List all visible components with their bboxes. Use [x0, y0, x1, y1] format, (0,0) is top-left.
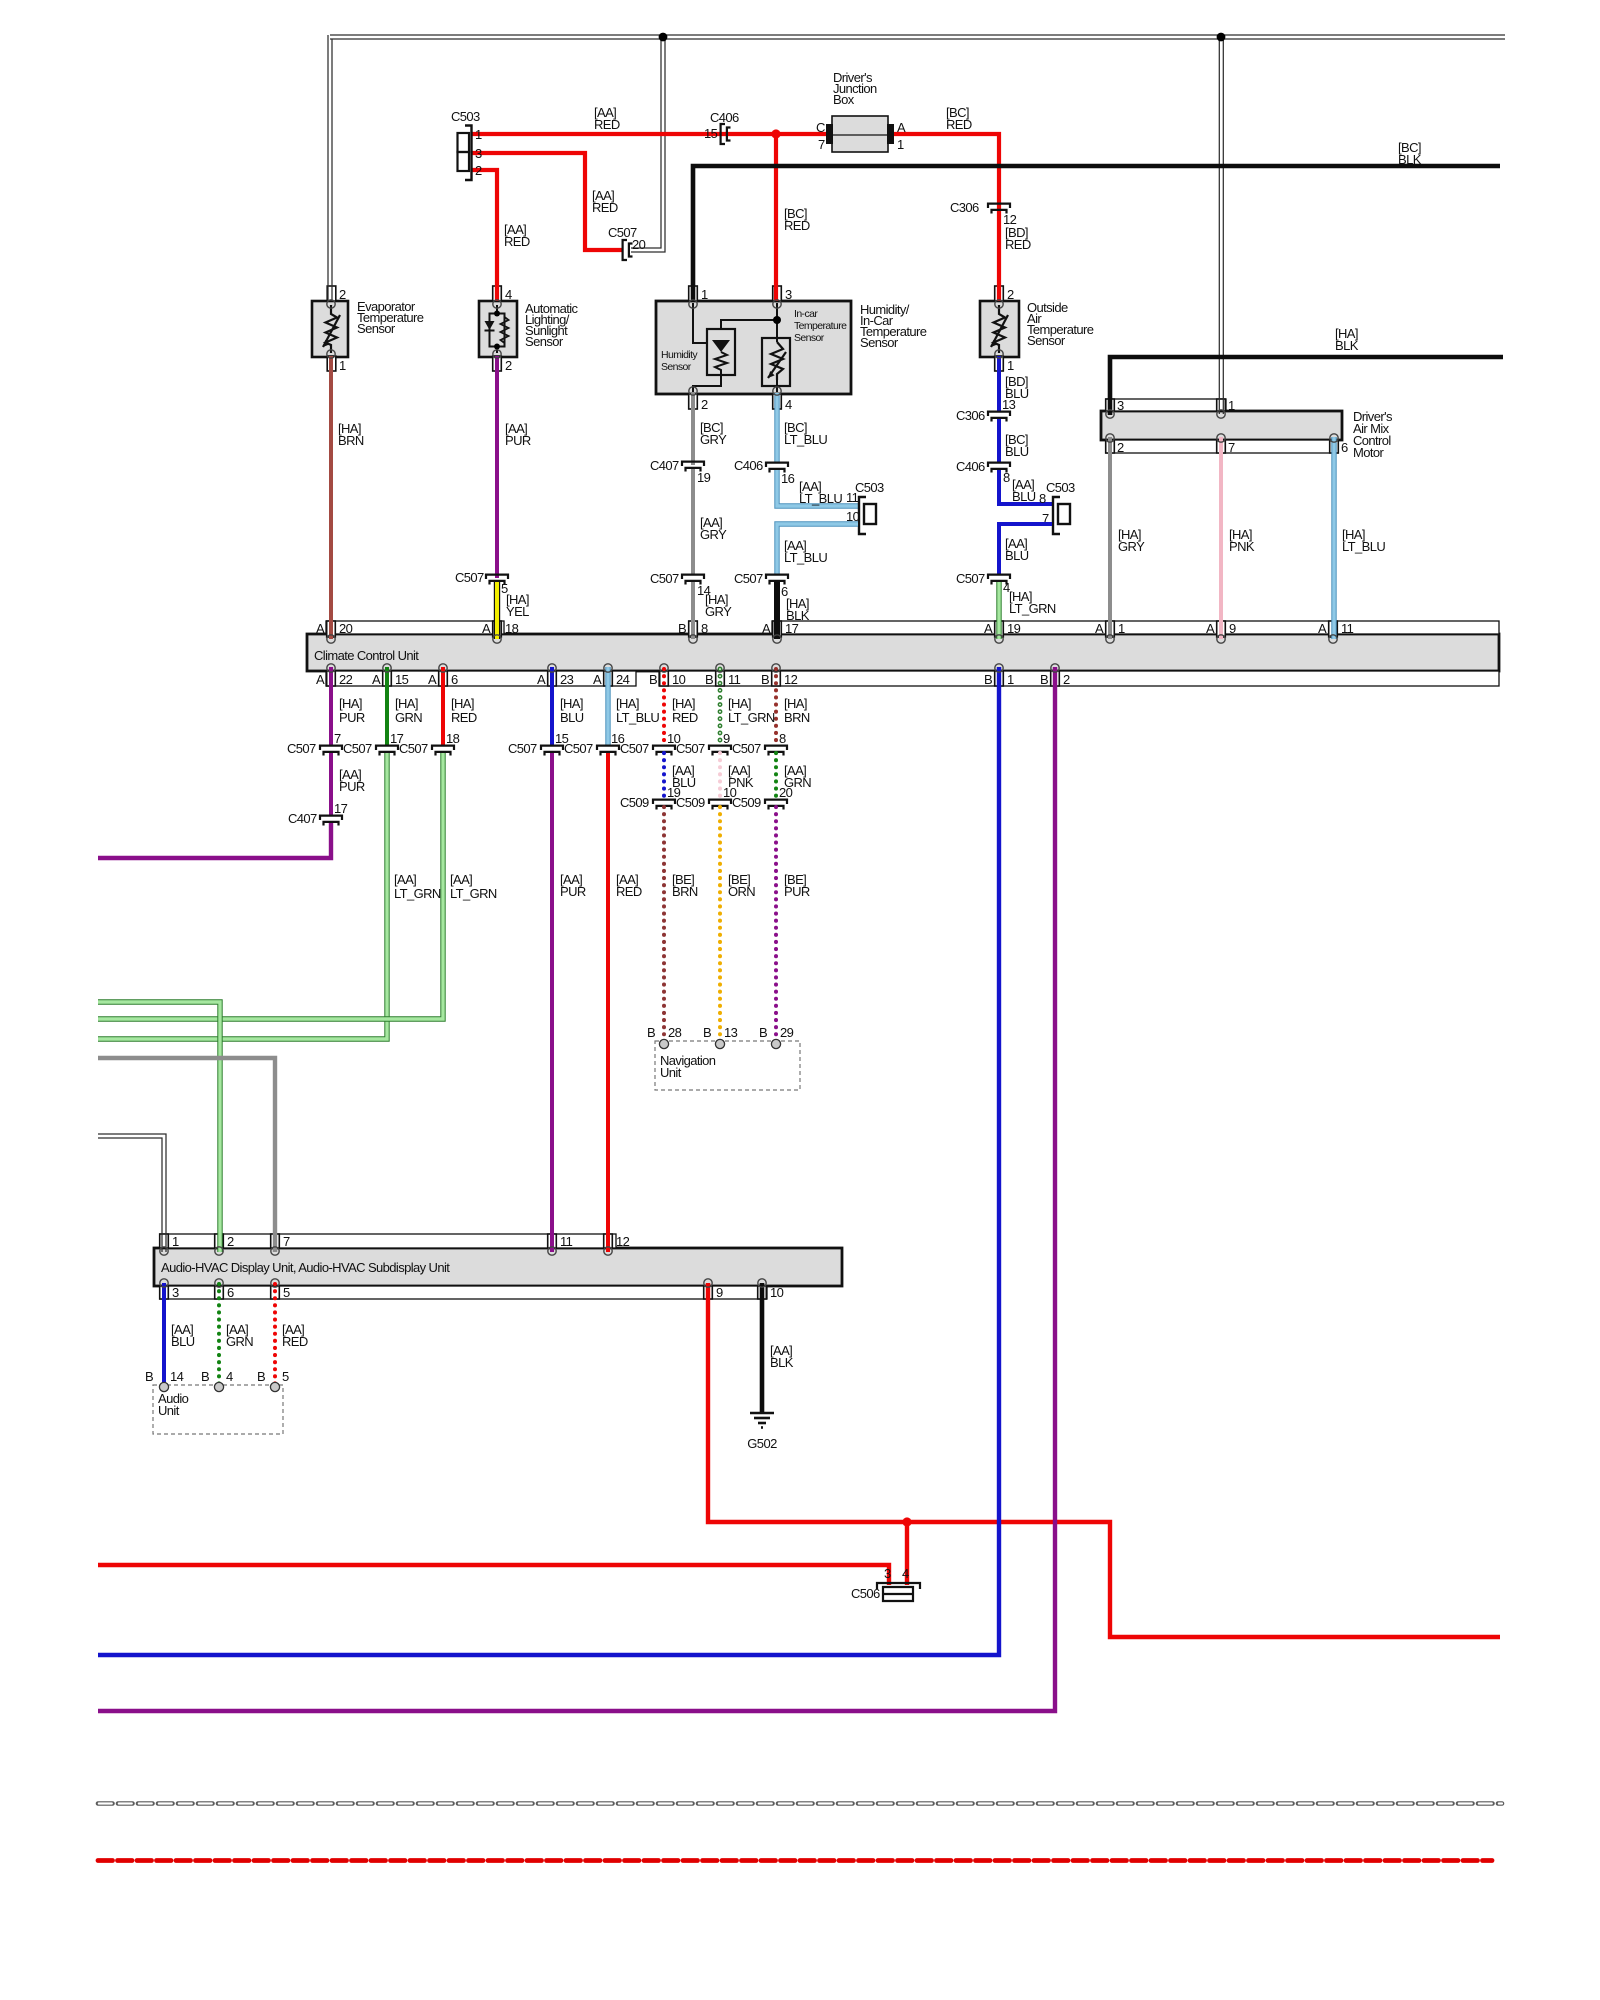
svg-text:3: 3 — [884, 1566, 891, 1581]
CCU pin A18 circle — [493, 635, 501, 643]
junction node red at C406 branch — [771, 129, 780, 138]
Display unit pin 1 square — [160, 1234, 169, 1248]
CCU pin B12 circle — [772, 664, 780, 672]
wire white drop to evaporator pin 2 — [327, 35, 329, 301]
wire [BC] GRY humidity pin2 to C407-19 — [691, 393, 695, 465]
Display pin 5 circle — [271, 1279, 279, 1287]
wire [HA] GRY motor pin2 to CCU A1 — [1108, 437, 1112, 639]
connector C406 pin 16 — [766, 463, 788, 467]
wire [AA] BLU display pin3 to Audio B14 — [162, 1283, 166, 1386]
CCU pin B2 circle — [1051, 664, 1059, 672]
svg-text:In-car: In-car — [794, 308, 818, 320]
svg-text:24: 24 — [616, 672, 630, 687]
Sunlight sensor pin 4 square — [493, 286, 502, 301]
svg-text:2: 2 — [227, 1234, 234, 1249]
svg-text:RED: RED — [946, 117, 972, 132]
wire [BE] BRN dotted C509-19 to Navigation B28 — [662, 807, 666, 1040]
svg-text:PUR: PUR — [560, 884, 586, 899]
wire [BC] BLU C306-13 to C406-8 — [997, 419, 1001, 463]
svg-text:[AA]: [AA] — [450, 872, 472, 887]
svg-text:C507: C507 — [650, 571, 679, 586]
Audio pin B5 circle — [270, 1382, 279, 1391]
wire [AA] GRY from left edge to display pin 7 — [98, 1058, 275, 1252]
svg-text:BRN: BRN — [784, 710, 810, 725]
Display unit pin 6 square — [215, 1286, 224, 1299]
svg-text:PNK: PNK — [1229, 539, 1255, 554]
wire [AA] LT_GRN C507-17 to left edge — [98, 753, 387, 1039]
wire [BC] LT_BLU humidity pin4 to C406-16 — [774, 393, 779, 463]
svg-text:C507: C507 — [287, 741, 316, 756]
svg-text:1: 1 — [339, 358, 346, 373]
svg-text:PUR: PUR — [339, 779, 365, 794]
svg-text:Audio-HVAC Display Unit, Audio: Audio-HVAC Display Unit, Audio-HVAC Subd… — [161, 1260, 450, 1275]
svg-text:C507: C507 — [734, 571, 763, 586]
Display unit pin 10 square — [758, 1286, 767, 1299]
svg-text:C507: C507 — [455, 570, 484, 585]
wire [HA] YEL C507-5 to CCU A18 — [494, 582, 500, 639]
svg-text:GRN: GRN — [226, 1334, 253, 1349]
connector C507 pin 18 — [432, 746, 454, 750]
connector C503 pins 11/10 (humidity) — [859, 497, 866, 534]
Display pin 6 circle — [215, 1279, 223, 1287]
svg-text:19: 19 — [1007, 621, 1021, 636]
CCU pin A23 circle — [548, 664, 556, 672]
svg-text:19: 19 — [697, 470, 711, 485]
svg-text:3: 3 — [475, 146, 482, 161]
svg-text:Sensor: Sensor — [860, 335, 899, 350]
connector C507 pin 4 — [988, 575, 1010, 579]
Display pin 10 circle — [758, 1279, 766, 1287]
svg-text:BLU: BLU — [171, 1334, 195, 1349]
svg-text:BLU: BLU — [1005, 548, 1029, 563]
svg-text:A: A — [428, 672, 437, 687]
svg-text:C507: C507 — [732, 741, 761, 756]
svg-text:[HA]: [HA] — [560, 696, 583, 711]
CCU pin A15 circle — [383, 664, 391, 672]
wire [AA] RED dotted display pin5 to Audio B5 — [273, 1284, 277, 1386]
svg-text:LT_BLU: LT_BLU — [784, 432, 827, 447]
svg-text:28: 28 — [668, 1025, 682, 1040]
svg-text:RED: RED — [784, 218, 810, 233]
svg-text:C506: C506 — [851, 1586, 880, 1601]
svg-text:A: A — [537, 672, 546, 687]
Motor pin 7 circle — [1217, 434, 1225, 442]
svg-text:C407: C407 — [288, 811, 317, 826]
CCU pin B10 circle — [660, 664, 668, 672]
junction node red above C506 — [902, 1517, 911, 1526]
Motor pin 1 circle — [1217, 410, 1225, 418]
Navigation pin B28 circle — [659, 1039, 668, 1048]
Audio-HVAC top pin-row box — [160, 1234, 616, 1248]
CCU pin A19 square — [995, 621, 1004, 637]
svg-text:LT_BLU: LT_BLU — [1342, 539, 1385, 554]
wire [HA] GRY C507-14 to CCU B8 — [691, 582, 695, 639]
svg-text:C507: C507 — [564, 741, 593, 756]
svg-text:C503: C503 — [1046, 480, 1075, 495]
svg-text:2: 2 — [339, 287, 346, 302]
wire [AA] PUR C407-17 to left edge — [98, 823, 331, 858]
Driver's Junction Box — [832, 116, 888, 152]
CCU pin A22 square — [327, 671, 336, 686]
separator dashed gray line — [98, 1801, 1502, 1806]
CCU pin A18 square — [493, 621, 502, 637]
svg-text:1: 1 — [897, 137, 904, 152]
Display pin 2 circle — [215, 1247, 223, 1255]
svg-text:B: B — [705, 672, 713, 687]
svg-text:LT_GRN: LT_GRN — [394, 886, 441, 901]
svg-text:C509: C509 — [732, 795, 761, 810]
svg-text:8: 8 — [701, 621, 708, 636]
Audio Unit dashed box — [153, 1385, 283, 1434]
svg-text:C507: C507 — [343, 741, 372, 756]
svg-text:C507: C507 — [399, 741, 428, 756]
Evaporator thermistor symbol — [326, 305, 338, 353]
CCU pin A17 square — [773, 621, 782, 637]
svg-text:Unit: Unit — [158, 1403, 180, 1418]
svg-text:C406: C406 — [956, 459, 985, 474]
Sunlight sensor photodiode+resistor symbol — [496, 305, 498, 353]
CCU pin B11 square — [716, 671, 725, 686]
Motor top pin-row box — [1106, 399, 1226, 411]
CCU pin A11 square — [1329, 621, 1338, 637]
svg-text:BLU: BLU — [560, 710, 584, 725]
wire [AA] RED display pin9 run — [708, 1283, 1500, 1637]
svg-text:A: A — [984, 621, 993, 636]
svg-text:A: A — [762, 621, 771, 636]
svg-text:29: 29 — [780, 1025, 794, 1040]
svg-text:9: 9 — [1229, 621, 1236, 636]
svg-text:9: 9 — [723, 731, 730, 746]
wire [AA] LT_GRN C507-18 to left edge — [98, 753, 443, 1019]
connector C503 pins 1/3/2 — [458, 133, 470, 152]
svg-text:1: 1 — [1228, 398, 1235, 413]
svg-text:A: A — [593, 672, 602, 687]
svg-text:BLK: BLK — [770, 1355, 794, 1370]
svg-text:PUR: PUR — [505, 433, 531, 448]
Automatic Lighting/Sunlight Sensor box — [479, 301, 517, 357]
connector C507 pin 5 — [486, 575, 508, 579]
Motor pin 2 square — [1106, 440, 1115, 453]
svg-text:GRY: GRY — [700, 527, 727, 542]
wire [AA] GRY C407-19 to C507-14 — [691, 469, 695, 575]
svg-text:15: 15 — [395, 672, 409, 687]
connector C507 pin 16 — [597, 746, 619, 750]
svg-text:4: 4 — [902, 1566, 909, 1581]
svg-text:20: 20 — [339, 621, 353, 636]
CCU pin B2 square — [1051, 671, 1060, 686]
connector C506 pins 3/4 — [877, 1583, 920, 1589]
connector C509 pin 10 — [709, 800, 731, 804]
connector C509 pin 19 — [653, 800, 675, 804]
svg-text:14: 14 — [170, 1369, 184, 1384]
svg-text:7: 7 — [818, 137, 825, 152]
wire [HA] RED dotted CCU B10 to C507-10 — [662, 669, 666, 745]
svg-text:6: 6 — [227, 1285, 234, 1300]
svg-text:A: A — [372, 672, 381, 687]
svg-text:Sensor: Sensor — [661, 361, 692, 373]
Navigation pin B29 circle — [771, 1039, 780, 1048]
svg-text:Climate Control Unit: Climate Control Unit — [314, 648, 419, 663]
svg-text:LT_BLU: LT_BLU — [616, 710, 659, 725]
svg-text:20: 20 — [632, 237, 646, 252]
svg-text:23: 23 — [560, 672, 574, 687]
svg-text:20: 20 — [779, 785, 793, 800]
Humidity sensor pin 3 square — [773, 286, 782, 301]
wire [AA] LT_BLU C503-10 back to C507-6 — [777, 524, 858, 575]
wire [BE] ORN dotted C509-10 to Navigation B13 — [718, 807, 722, 1040]
svg-text:GRY: GRY — [705, 604, 732, 619]
Humidity sensor element (diode+resistor) — [712, 340, 730, 352]
svg-text:ORN: ORN — [728, 884, 755, 899]
svg-text:RED: RED — [504, 234, 530, 249]
svg-text:12: 12 — [616, 1234, 630, 1249]
svg-text:C507: C507 — [620, 741, 649, 756]
CCU pin A24 circle — [604, 664, 612, 672]
svg-text:3: 3 — [785, 287, 792, 302]
connector C507 pin 7 — [320, 746, 342, 750]
wire [HA] BLU CCU to C507 — [550, 667, 554, 745]
svg-text:8: 8 — [779, 731, 786, 746]
Motor pin 7 square — [1217, 440, 1226, 453]
svg-text:11: 11 — [846, 490, 859, 505]
Evaporator sensor pin 2 square — [327, 286, 336, 301]
wire [HA] RED CCU to C507 — [441, 667, 445, 745]
svg-text:2: 2 — [475, 163, 482, 178]
junction node on white bus — [659, 33, 668, 42]
wire [HA] BLU CCU B1 to left edge — [98, 667, 999, 1655]
svg-text:RED: RED — [594, 117, 620, 132]
svg-text:C503: C503 — [855, 480, 884, 495]
svg-text:Sensor: Sensor — [357, 321, 396, 336]
connector C406 pin 15 — [721, 124, 725, 144]
Display unit pin 3 square — [160, 1286, 169, 1299]
OAT sensor pin 1 square — [995, 356, 1004, 371]
Display pin 7 circle — [271, 1247, 279, 1255]
svg-text:A: A — [1318, 621, 1327, 636]
CCU pin A9 circle — [1217, 635, 1225, 643]
separator dashed red line — [98, 1858, 1492, 1863]
Evaporator sensor pin 1 square — [327, 356, 336, 371]
OAT pin circles — [995, 300, 1003, 308]
wire [HA] LT_BLU CCU A24 to C507-16 — [605, 667, 610, 745]
svg-text:A: A — [316, 672, 325, 687]
svg-text:8: 8 — [1039, 491, 1046, 506]
svg-text:[HA]: [HA] — [728, 696, 751, 711]
svg-text:A: A — [1095, 621, 1104, 636]
svg-text:LT_BLU: LT_BLU — [799, 491, 842, 506]
svg-text:C507: C507 — [508, 741, 537, 756]
wire [BD] BLU OAT pin1 to C306-13 — [997, 356, 1001, 411]
wire [HA] BLK C507-6 to CCU A17 — [774, 582, 780, 639]
Audio-HVAC bottom pin-row box — [160, 1286, 767, 1299]
svg-text:4: 4 — [785, 397, 792, 412]
Climate Control Unit bottom pin-row box A22-A24 — [326, 671, 636, 686]
wire [BC] RED branch down to humidity pin 3 — [774, 134, 778, 301]
CCU pin B8 circle — [689, 635, 697, 643]
svg-text:C306: C306 — [956, 408, 985, 423]
Humidity pin circles — [689, 300, 697, 308]
wire [HA] LT_BLU motor pin6 to CCU A11 — [1331, 437, 1336, 639]
CCU pin B8 square — [689, 621, 698, 637]
wire [HA] LT_GRN C507-4 to CCU A19 — [996, 582, 1001, 639]
CCU pin B1 circle — [995, 664, 1003, 672]
connector C407 pin 19 — [682, 462, 704, 466]
svg-text:Sensor: Sensor — [1027, 333, 1066, 348]
svg-text:2: 2 — [1063, 672, 1070, 687]
wire [AA] PNK dotted C507-9 to C509-10 — [718, 753, 722, 799]
wire [AA] BLK display pin10 to ground — [760, 1283, 765, 1412]
svg-text:Sensor: Sensor — [794, 332, 825, 344]
svg-text:9: 9 — [716, 1285, 723, 1300]
svg-text:1: 1 — [172, 1234, 179, 1249]
Humidity sensor sub-box — [707, 329, 735, 375]
wire [AA] BLU C503-7 back to C507-4 — [999, 524, 1052, 575]
svg-text:Temperature: Temperature — [794, 320, 847, 332]
svg-text:[HA]: [HA] — [339, 696, 362, 711]
svg-text:Sensor: Sensor — [525, 334, 564, 349]
wire [HA] GRN CCU to C507 — [385, 667, 389, 745]
svg-text:7: 7 — [1228, 440, 1235, 455]
wire red stub to C506 pin 4 — [905, 1522, 909, 1585]
CCU pin A20 circle — [327, 635, 335, 643]
Display pin 11 circle — [548, 1247, 556, 1255]
CCU pin B12 square — [772, 671, 781, 686]
svg-text:C407: C407 — [650, 458, 679, 473]
Humidity sensor pin 2 square — [689, 394, 698, 409]
wire [AA] RED C507-16 to display pin 12 — [606, 753, 610, 1252]
wire [AA] PUR C507-7 to C407-17 — [329, 753, 333, 815]
svg-text:3: 3 — [172, 1285, 179, 1300]
OAT sensor pin 2 square — [995, 286, 1004, 301]
connector C507 pin 14 — [682, 575, 704, 579]
Display unit pin 2 square — [215, 1234, 224, 1248]
svg-text:11: 11 — [728, 672, 741, 687]
Display unit pin 12 square — [604, 1234, 613, 1248]
svg-text:13: 13 — [724, 1025, 738, 1040]
connector C507 pin 8 — [765, 746, 787, 750]
connector C507 pin 10 — [653, 746, 675, 750]
Display unit pin 5 square — [271, 1286, 280, 1299]
svg-text:A: A — [897, 120, 906, 135]
svg-text:GRY: GRY — [1118, 539, 1145, 554]
svg-text:[HA]: [HA] — [616, 696, 639, 711]
svg-text:C306: C306 — [950, 200, 979, 215]
connector C507 pin 15 — [541, 746, 563, 750]
Climate Control Unit top pin-row box A17-A11 — [772, 621, 1499, 634]
Climate Control Unit box — [307, 634, 1499, 671]
Driver's Air Mix Control Motor box — [1101, 411, 1342, 440]
node inside humidity sensor — [773, 316, 781, 324]
wire [HA] BLK to motor pin 3 — [1110, 357, 1503, 415]
svg-text:G502: G502 — [747, 1436, 777, 1451]
CCU pin A6 circle — [439, 664, 447, 672]
wire [AA] GRN dotted display pin6 to Audio B4 — [217, 1284, 221, 1386]
svg-text:2: 2 — [505, 358, 512, 373]
Display unit pin 11 square — [548, 1234, 557, 1248]
svg-text:18: 18 — [505, 621, 519, 636]
svg-text:2: 2 — [1007, 287, 1014, 302]
wire [HA] LT_GRN dotted CCU B11 to C507-9 — [718, 669, 723, 745]
svg-text:5: 5 — [282, 1369, 289, 1384]
Outside Air Temperature Sensor box — [980, 301, 1019, 357]
svg-text:B: B — [257, 1369, 265, 1384]
svg-text:6: 6 — [451, 672, 458, 687]
svg-text:Unit: Unit — [660, 1065, 682, 1080]
svg-text:C507: C507 — [956, 571, 985, 586]
svg-text:Box: Box — [833, 92, 855, 107]
connector C306 pin 12 — [988, 204, 1010, 208]
svg-text:4: 4 — [226, 1369, 233, 1384]
svg-text:PUR: PUR — [339, 710, 365, 725]
svg-text:12: 12 — [784, 672, 798, 687]
svg-text:4: 4 — [505, 287, 512, 302]
svg-text:RED: RED — [616, 884, 642, 899]
svg-text:A: A — [316, 621, 325, 636]
svg-text:RED: RED — [451, 710, 477, 725]
svg-text:15: 15 — [704, 126, 718, 141]
svg-text:B: B — [649, 672, 657, 687]
Humidity sensor internal wiring — [693, 303, 707, 343]
Motor bottom pin-row box — [1106, 440, 1338, 453]
svg-text:RED: RED — [1005, 237, 1031, 252]
wire [AA] BLU C406-8 to C503-8 — [999, 470, 1052, 504]
wire [AA] RED C503-2 down to sunlight sensor pin 4 — [471, 170, 497, 301]
svg-text:11: 11 — [560, 1234, 573, 1249]
svg-text:1: 1 — [475, 127, 482, 142]
svg-text:10: 10 — [770, 1285, 784, 1300]
Motor pin 1 square — [1217, 399, 1226, 411]
wire [HA] BRN evaporator to CCU A20 — [329, 356, 333, 639]
CCU pin A22 circle — [327, 664, 335, 672]
svg-text:RED: RED — [282, 1334, 308, 1349]
svg-text:C: C — [816, 120, 825, 135]
svg-text:GRY: GRY — [700, 432, 727, 447]
svg-text:[HA]: [HA] — [395, 696, 418, 711]
svg-text:PUR: PUR — [784, 884, 810, 899]
CCU pin A6 square — [439, 671, 448, 686]
svg-text:B: B — [1040, 672, 1048, 687]
connector C503 pins 8/7 (OAT) — [1053, 497, 1060, 534]
Motor pin 6 circle — [1330, 434, 1338, 442]
CCU pin A24 square — [604, 671, 613, 686]
svg-text:[HA]: [HA] — [451, 696, 474, 711]
wire white drop to motor pin 1 — [1218, 37, 1220, 414]
svg-text:YEL: YEL — [506, 604, 529, 619]
wire [HA] PUR CCU to C507 — [329, 667, 333, 745]
svg-text:C406: C406 — [734, 458, 763, 473]
svg-text:1: 1 — [701, 287, 708, 302]
CCU pin A20 square — [327, 621, 336, 637]
svg-text:[HA]: [HA] — [672, 696, 695, 711]
Climate Control Unit top pin-row box A20-A18 — [326, 621, 504, 634]
wire [BC] BLK — [693, 166, 1500, 301]
CCU pin A1 circle — [1106, 635, 1114, 643]
wire [HA] PNK motor pin7 to CCU A9 — [1219, 437, 1223, 639]
Motor pin 3 circle — [1106, 410, 1114, 418]
svg-text:[HA]: [HA] — [784, 696, 807, 711]
connector C507 pin 6 — [766, 575, 788, 579]
svg-text:B: B — [678, 621, 686, 636]
Display pin 1 circle — [160, 1247, 168, 1255]
svg-text:17: 17 — [785, 621, 799, 636]
svg-text:BLK: BLK — [1398, 152, 1422, 167]
Motor pin 3 square — [1106, 399, 1115, 411]
svg-text:C406: C406 — [710, 110, 739, 125]
svg-text:12: 12 — [1003, 212, 1017, 227]
svg-text:7: 7 — [334, 731, 341, 746]
Humidity/In-Car Temperature Sensor box — [656, 301, 851, 394]
OAT thermistor symbol — [994, 305, 1006, 353]
